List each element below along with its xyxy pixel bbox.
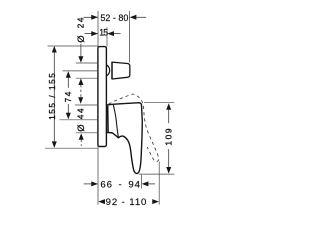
dimension 92 - 110 bottom: [98, 162, 159, 209]
wire lever inner edge line: [113, 105, 118, 138]
svg-text:44: 44: [76, 107, 85, 119]
wire lever hub front face line: [107, 106, 109, 133]
dimension 74: [64, 71, 73, 119]
svg-text:66 - 94: 66 - 94: [100, 179, 140, 190]
node lever handle open position dashed: [109, 94, 159, 161]
svg-text:92 - 110: 92 - 110: [106, 197, 148, 208]
svg-text:Ø: Ø: [76, 35, 86, 42]
dimension diameter 24 knob: [76, 16, 86, 85]
node escutcheon plate outline: [98, 47, 107, 147]
extension line lever axis: [60, 119, 98, 121]
dimension 52 - 80 top: [84, 11, 147, 63]
node diverter knob neck arc: [107, 65, 110, 76]
wire wall reference line: [97, 11, 99, 205]
node diverter knob body: [112, 62, 130, 79]
svg-text:52 - 80: 52 - 80: [100, 13, 128, 23]
extension line hub bottom: [76, 132, 98, 134]
extension line knob bottom: [76, 77, 98, 79]
svg-text:15: 15: [99, 28, 108, 38]
svg-text:109: 109: [164, 127, 174, 146]
svg-text:74: 74: [64, 90, 73, 102]
dimension 66 - 94 bottom: [84, 175, 155, 191]
extension line hub top: [75, 104, 98, 106]
dimension 15: [85, 27, 121, 46]
extension line knob top: [76, 62, 98, 64]
dimension 155 / 155: [45, 46, 98, 148]
dimension 109 right: [139, 103, 175, 174]
dimension diameter 44 lever hub: [76, 85, 86, 146]
node lever handle closed position: [107, 103, 143, 174]
svg-text:24: 24: [76, 16, 85, 28]
extension line knob axis: [63, 70, 98, 72]
wire knob left face: [111, 62, 113, 79]
svg-text:Ø: Ø: [76, 124, 86, 131]
svg-text:155 / 155: 155 / 155: [48, 72, 57, 120]
